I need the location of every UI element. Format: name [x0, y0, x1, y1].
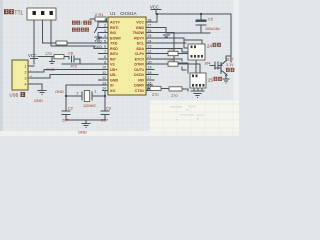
svg-text:6: 6 [104, 45, 106, 49]
svg-text:VCC: VCC [136, 21, 144, 25]
svg-text:270: 270 [171, 93, 178, 98]
svg-text:2: 2 [25, 70, 27, 74]
svg-text:V3: V3 [110, 63, 115, 67]
wire USB D+ to chip pin11 [28, 75, 108, 79]
wire 25-series mesh [174, 63, 188, 73]
resistor R5 on pin20 row [168, 62, 178, 66]
ground regulator [223, 79, 230, 83]
wire regulator connections [226, 56, 231, 79]
svg-text:26: 26 [148, 29, 152, 33]
ground 25 socket [194, 94, 202, 98]
svg-text:3.1V: 3.1V [226, 63, 234, 67]
svg-text:TXD: TXD [110, 42, 118, 46]
wire 104 cap stubs [210, 65, 222, 67]
svg-text:C2: C2 [68, 106, 73, 111]
svg-text:2: 2 [95, 13, 97, 17]
svg-text:24: 24 [148, 39, 152, 43]
chip left pin stubs [98, 22, 108, 90]
chip right pin names [133, 21, 145, 93]
label 刷机TTL [4, 9, 24, 16]
wire SDA [146, 40, 202, 52]
svg-text:11: 11 [102, 71, 106, 75]
svg-text:20P: 20P [101, 118, 108, 123]
svg-text:18: 18 [148, 71, 152, 75]
crystal Y1 12MHZ [77, 90, 97, 109]
svg-text:472: 472 [71, 64, 78, 69]
svg-text:2: 2 [104, 24, 106, 28]
svg-text:CTS#: CTS# [135, 89, 144, 93]
bottom-right ruled table area [150, 101, 239, 137]
svg-text:R1: R1 [99, 13, 104, 17]
svg-text:1117: 1117 [226, 57, 234, 61]
svg-text:104: 104 [204, 60, 211, 65]
wire TXD resistor to chip pin5 [67, 42, 108, 44]
svg-text:19: 19 [148, 66, 152, 70]
svg-text:13: 13 [102, 81, 106, 85]
svg-text:4: 4 [104, 34, 106, 38]
ground (crystal bottom) [82, 124, 91, 128]
svg-text:GND: GND [136, 26, 145, 30]
ground (pin27 rail) [163, 35, 170, 37]
junction dots [65, 13, 202, 97]
wire crystal ground rail [66, 120, 105, 124]
chip right pin numbers [148, 18, 152, 90]
ground (usb pin4) [38, 91, 47, 95]
wire pin21 through resistor [146, 59, 186, 70]
svg-text:28: 28 [148, 18, 152, 22]
svg-text:+: + [30, 74, 32, 78]
svg-text:3: 3 [104, 29, 106, 33]
wire pin28 to VCC rail [146, 14, 231, 22]
wire pin25 to 24-series socket [146, 38, 188, 48]
svg-text:IN3: IN3 [110, 31, 116, 35]
wire pin27 to gnd rail [146, 27, 166, 33]
chip left pin numbers [102, 18, 106, 90]
svg-text:220: 220 [169, 58, 175, 62]
svg-text:TTL: TTL [14, 11, 23, 17]
connector P1 刷机TTL [27, 8, 56, 20]
chip U1 CH341A [108, 11, 146, 95]
wire SCL [146, 42, 186, 44]
svg-text:24: 24 [207, 43, 212, 48]
wire USB pin4 to ground [28, 84, 42, 90]
svg-text:10: 10 [102, 66, 106, 70]
svg-text:16: 16 [148, 81, 152, 85]
wire pin20 through resistor [146, 64, 200, 73]
svg-text:XO: XO [110, 89, 115, 93]
svg-text:20P: 20P [62, 118, 69, 123]
svg-text:VCC: VCC [28, 53, 37, 58]
chip right pin stubs [146, 22, 153, 90]
wire 25-series socket grounds [191, 88, 204, 91]
svg-text:DSR#: DSR# [134, 84, 144, 88]
resistor R3 on RC filter [45, 52, 64, 59]
svg-text:12: 12 [102, 76, 106, 80]
svg-text:220: 220 [169, 48, 175, 52]
svg-text:ACT#: ACT# [110, 21, 120, 25]
svg-text:270: 270 [152, 92, 159, 97]
svg-text:RXD: RXD [110, 47, 118, 51]
svg-text:100u/16v: 100u/16v [205, 27, 220, 31]
svg-text:12MHZ: 12MHZ [83, 103, 96, 108]
label 24系列 [207, 43, 221, 49]
capacitor C2 [62, 106, 73, 123]
svg-text:4: 4 [25, 82, 27, 86]
svg-text:USB: USB [10, 92, 19, 97]
svg-text:U1: U1 [110, 11, 116, 16]
label 25系列 [208, 77, 222, 83]
svg-text:2: 2 [77, 92, 79, 96]
switch lever [95, 26, 99, 33]
wire switch stub [93, 19, 98, 22]
svg-text:INT#: INT# [110, 52, 118, 56]
capacitor C5 [196, 17, 220, 31]
right page margin [234, 0, 240, 136]
regulator 1117 [214, 57, 234, 75]
capacitor C3 [101, 106, 111, 123]
svg-text:C3: C3 [106, 106, 111, 111]
svg-text:GND: GND [110, 78, 119, 82]
svg-text:OUT#: OUT# [134, 68, 144, 72]
svg-text:C5: C5 [208, 17, 213, 22]
svg-text:SDA: SDA [136, 47, 144, 51]
resistor R4 on pin21 row [168, 51, 178, 55]
wire gnd rail right [166, 32, 210, 34]
wire pin16 jog to resistor 270a [146, 85, 150, 88]
eeprom socket 24系列 [188, 44, 205, 60]
VCC label (left) [28, 53, 38, 64]
svg-text:RDY#: RDY# [134, 36, 144, 40]
svg-text:CH341A: CH341A [120, 11, 137, 16]
wire chip pin14 jog to crystal right node [105, 90, 108, 96]
wire USB D- to chip pin10 [28, 69, 108, 72]
resistor R2 on TXD line [56, 41, 67, 45]
svg-text:22: 22 [148, 50, 152, 54]
svg-text:1: 1 [95, 90, 97, 94]
svg-text:XI: XI [110, 84, 113, 88]
svg-text:TNOW: TNOW [133, 31, 145, 35]
svg-text:RI#: RI# [138, 78, 144, 82]
svg-text:27: 27 [148, 24, 152, 28]
svg-text:21: 21 [148, 55, 152, 59]
svg-text:GND: GND [55, 89, 64, 94]
svg-text:C8: C8 [68, 50, 73, 55]
svg-text:25: 25 [148, 34, 152, 38]
svg-text:17Ω: 17Ω [45, 52, 52, 56]
wire C5 stubs [200, 14, 202, 33]
wire pin19 row [146, 68, 154, 70]
svg-text:DTR#: DTR# [134, 63, 144, 67]
svg-text:14: 14 [102, 87, 106, 91]
usb connector J2 USB口 [12, 60, 28, 90]
svg-text:ETC#: ETC# [135, 57, 144, 61]
resistor R6 270 [150, 86, 161, 97]
wire crystal row [66, 95, 105, 97]
background grid [0, 0, 239, 136]
chip left pin names [110, 21, 121, 93]
svg-text:GND: GND [46, 67, 55, 72]
wire C3 branch [104, 96, 106, 120]
switch S1 ground [95, 37, 102, 41]
svg-text:IN7: IN7 [110, 57, 116, 61]
wire C2 branch [65, 96, 67, 120]
svg-text:EOW#: EOW# [110, 36, 121, 40]
wire pin22 row [146, 54, 196, 74]
svg-text:UD+: UD+ [110, 68, 117, 72]
capacitor C7 472 [71, 64, 78, 69]
label USB口 [10, 92, 26, 97]
capacitor C6 104 [204, 60, 218, 69]
svg-text:1: 1 [104, 18, 106, 22]
wire pin26 down right bus [146, 33, 174, 64]
svg-text:7: 7 [104, 50, 106, 54]
wire pin17 row [146, 79, 154, 81]
wire USB pin1 to VCC [28, 65, 34, 67]
svg-text:9: 9 [104, 60, 106, 64]
svg-text:3: 3 [25, 76, 27, 80]
svg-text:5: 5 [104, 39, 106, 43]
svg-text:20: 20 [148, 60, 152, 64]
label 刷机/编程 拨动开关 (switch label) [72, 21, 92, 32]
wire RC filter row [38, 57, 80, 64]
wire TTL pad3 down to RXD [51, 15, 108, 48]
svg-text:GND: GND [78, 130, 87, 135]
svg-text:UD-: UD- [110, 73, 117, 77]
svg-text:25: 25 [208, 77, 213, 82]
svg-text:SCL: SCL [137, 42, 145, 46]
wire pin15 jog to resistor 270b [146, 89, 148, 90]
svg-text:DCD#: DCD# [134, 73, 144, 77]
wire pin18 row [146, 74, 158, 76]
svg-text:RSTI: RSTI [110, 26, 118, 30]
capacitor C8 [68, 50, 74, 62]
wire right edge vertical [230, 14, 232, 62]
svg-text:GND: GND [34, 98, 43, 103]
wire switch vertical [97, 22, 99, 37]
wire R1 to switch and chip pin1 [90, 19, 108, 22]
left page edge band [0, 0, 3, 136]
wire VCC symbol stub [151, 10, 161, 15]
wire V3 row from VCC vertical to chip pin9 [62, 63, 108, 65]
wire TTL pad1 to VCC vertical [33, 15, 35, 64]
wire 270 resistors row [161, 88, 188, 91]
resistor R7 270 [169, 87, 182, 98]
svg-text:1: 1 [25, 64, 27, 68]
svg-text:23: 23 [148, 45, 152, 49]
resistor R1 [95, 13, 106, 21]
flash socket 25系列 [190, 73, 206, 88]
svg-text:CLP#: CLP# [135, 52, 144, 56]
svg-text:17: 17 [148, 76, 152, 80]
wire chip pin13 to crystal left node [66, 85, 108, 96]
wire TTL pad2 down [43, 15, 57, 43]
svg-text:8: 8 [104, 55, 106, 59]
svg-text:VCC: VCC [150, 5, 159, 10]
